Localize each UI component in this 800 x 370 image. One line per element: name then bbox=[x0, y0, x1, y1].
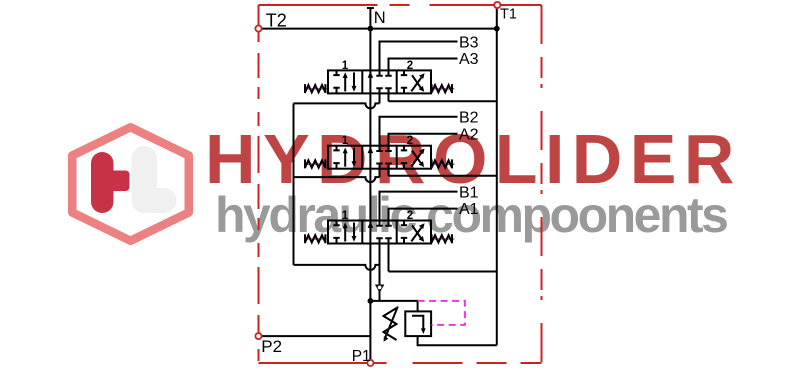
svg-text:B2: B2 bbox=[459, 110, 479, 127]
svg-text:T1: T1 bbox=[500, 7, 517, 23]
svg-text:A3: A3 bbox=[459, 51, 479, 68]
svg-text:B3: B3 bbox=[459, 34, 479, 51]
svg-text:1: 1 bbox=[342, 135, 349, 147]
svg-text:N: N bbox=[374, 9, 386, 27]
svg-text:A1: A1 bbox=[459, 201, 479, 218]
svg-text:2: 2 bbox=[407, 210, 413, 222]
svg-text:A2: A2 bbox=[459, 126, 479, 143]
svg-text:2: 2 bbox=[407, 60, 413, 72]
svg-text:P2: P2 bbox=[261, 337, 282, 356]
svg-text:1: 1 bbox=[342, 60, 349, 72]
svg-text:P1: P1 bbox=[352, 348, 371, 365]
svg-text:T2: T2 bbox=[266, 10, 287, 30]
svg-text:B1: B1 bbox=[459, 184, 479, 201]
svg-text:1: 1 bbox=[342, 210, 349, 222]
svg-text:2: 2 bbox=[407, 135, 413, 147]
